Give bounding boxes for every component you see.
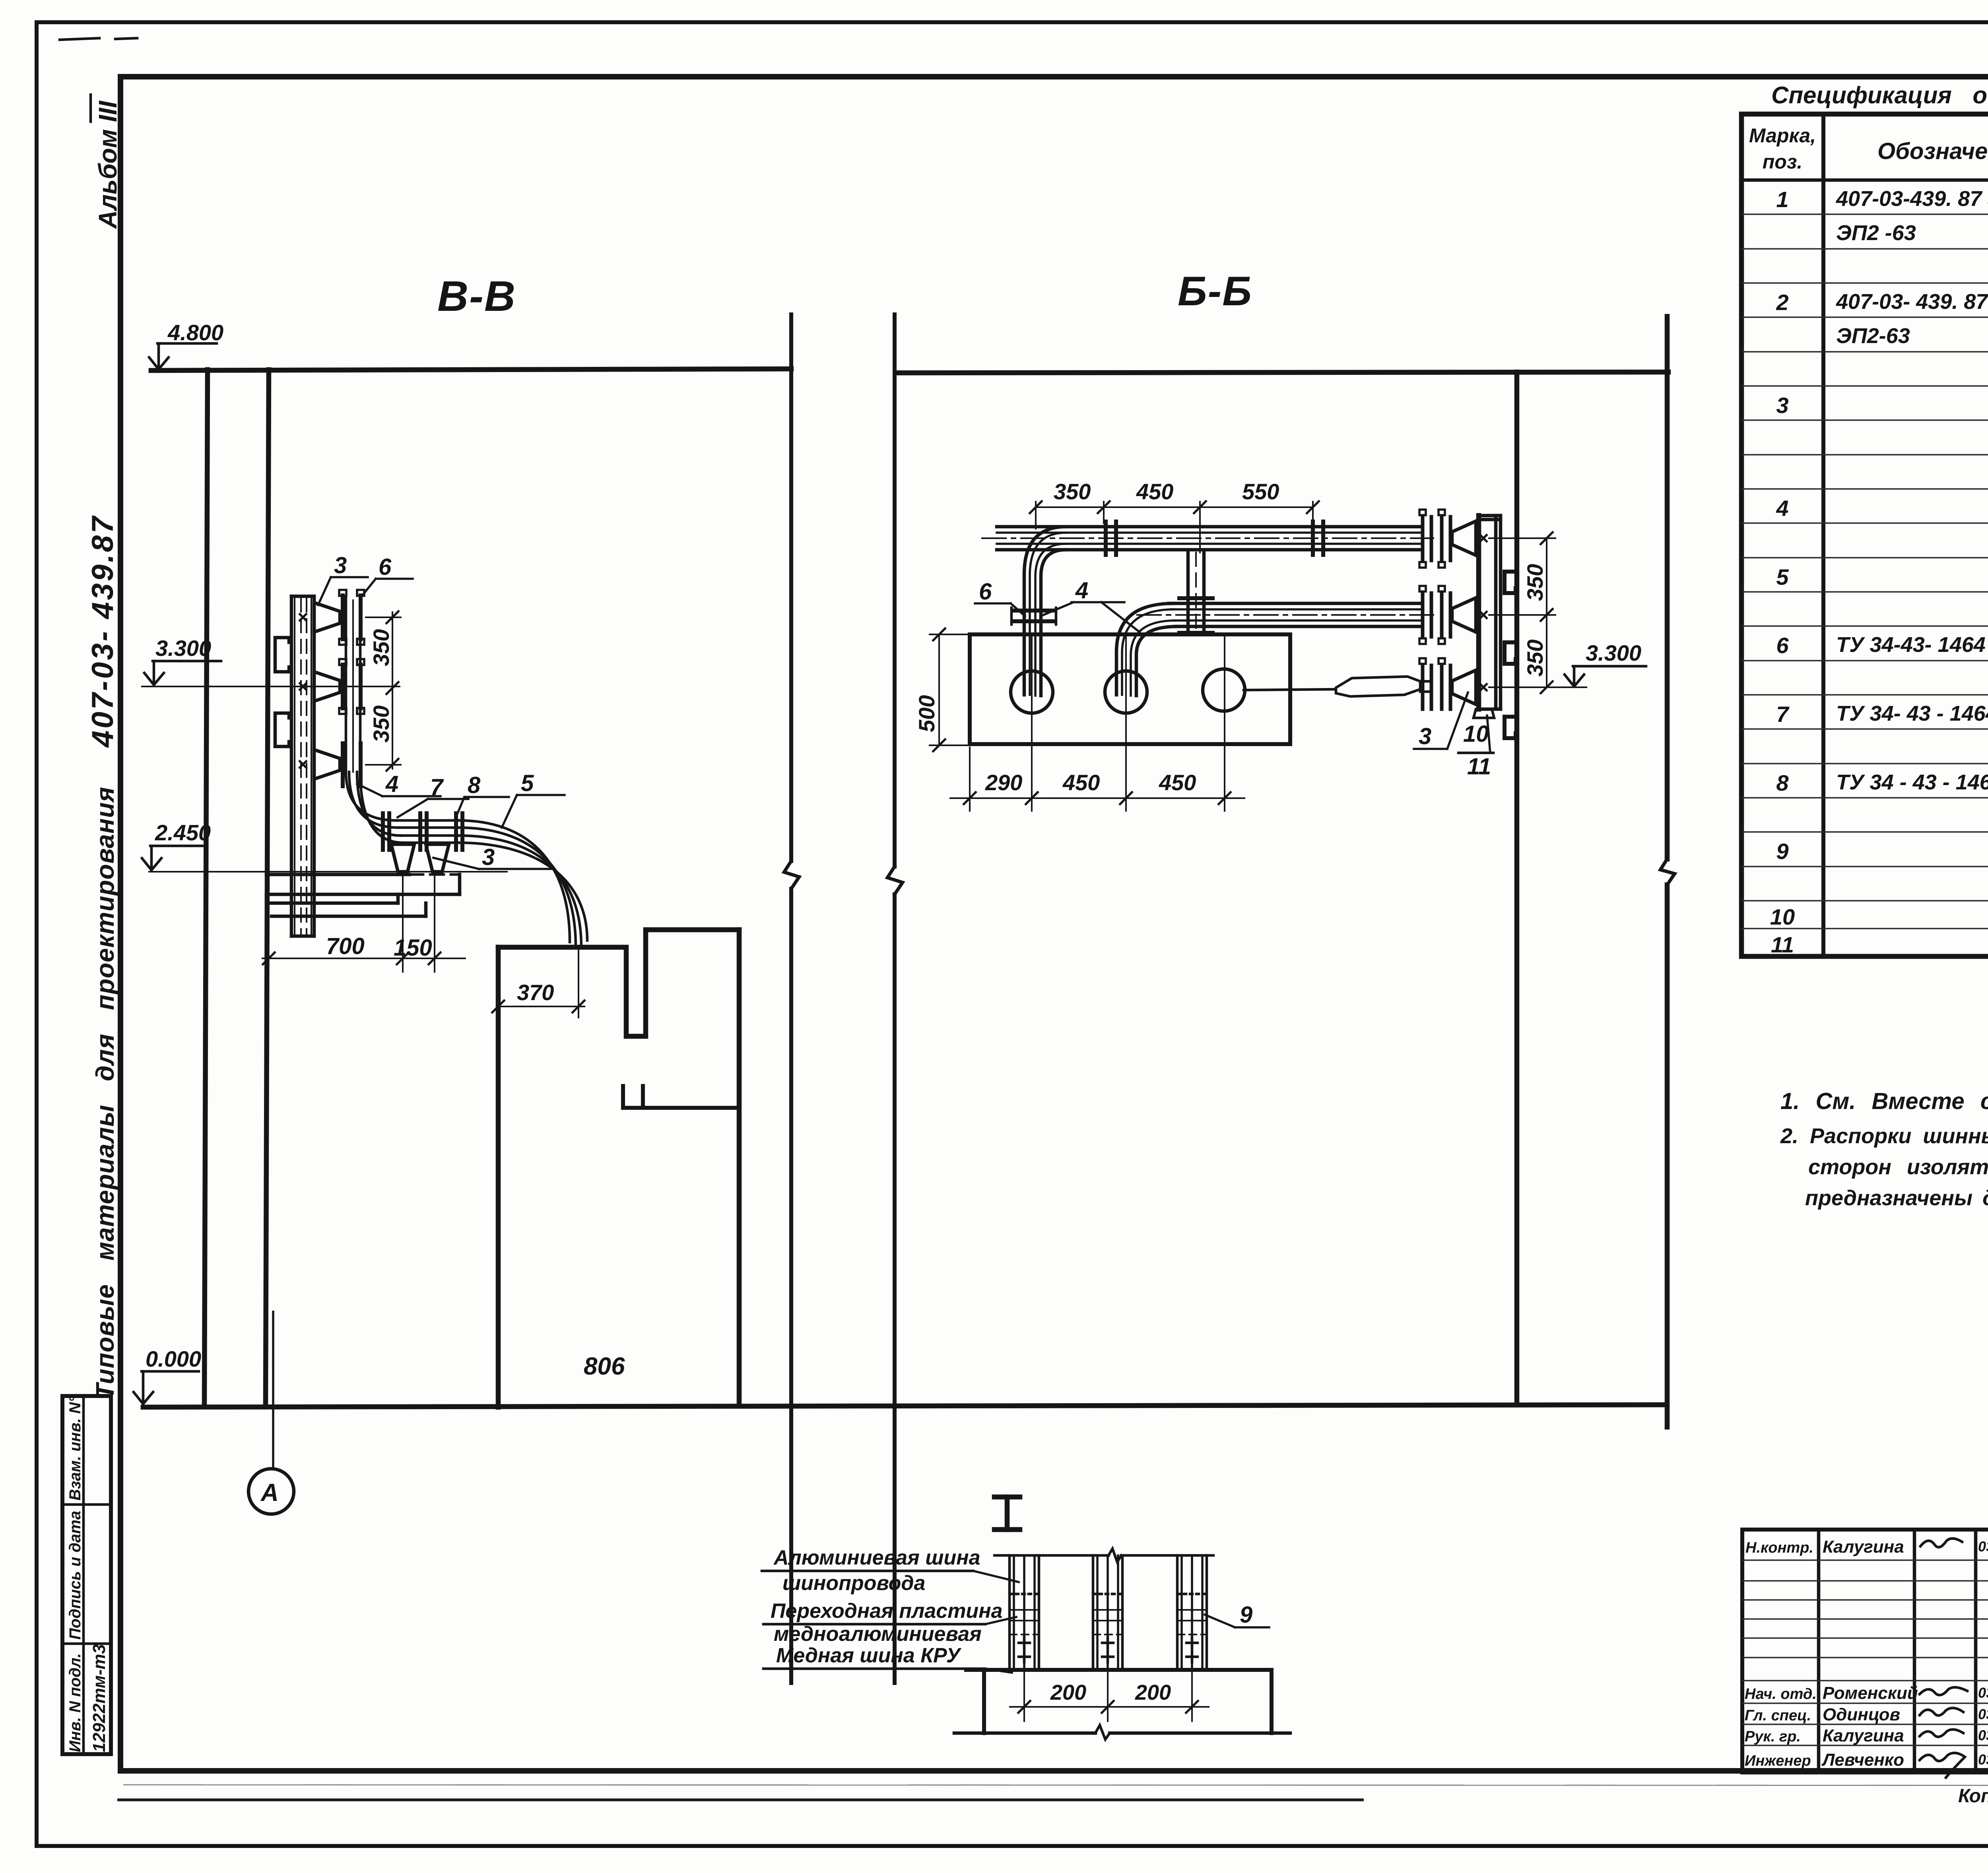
svg-text:11: 11	[1467, 754, 1491, 779]
svg-text:шинопровода: шинопровода	[782, 1572, 925, 1595]
kopir signature	[1958, 1786, 1988, 1807]
detail I roman numeral	[994, 1497, 1020, 1530]
svg-text:Нач. отд.: Нач. отд.	[1745, 1686, 1817, 1702]
label 7 with leader	[398, 774, 468, 817]
svg-text:Калугина: Калугина	[1823, 1537, 1904, 1557]
svg-text:8: 8	[1776, 770, 1789, 795]
third phase tap line	[1244, 677, 1431, 696]
detail I label 9	[1205, 1602, 1269, 1628]
svg-text:Переходная пластина: Переходная пластина	[771, 1600, 1003, 1623]
cabinet shelf	[623, 1086, 739, 1108]
wall plate flange bottom	[1419, 658, 1476, 709]
specification table row lines	[1741, 214, 1988, 929]
svg-text:407-03- 439. 87 ал. III: 407-03- 439. 87 ал. III	[1836, 290, 1988, 314]
wall break line right of pair	[887, 314, 903, 1683]
svg-text:Спецификация оборудования: Спецификация оборудования и материалов	[1771, 82, 1988, 109]
svg-text:700: 700	[326, 933, 365, 959]
dimension 350 350 vertical V-V	[366, 611, 401, 771]
svg-text:3.300: 3.300	[1586, 640, 1641, 665]
label 3 lower with leader	[433, 844, 553, 870]
label 6 leader B-B section	[975, 579, 1025, 616]
detail I callout aluminium bus	[762, 1546, 1019, 1595]
slab hole circle 3	[1203, 669, 1245, 711]
svg-text:Медная шина КРУ: Медная шина КРУ	[776, 1644, 962, 1667]
svg-text:Инв. N подл.: Инв. N подл.	[66, 1653, 84, 1752]
wall bracket upper	[275, 638, 289, 672]
svg-text:ЭП2-63: ЭП2-63	[1836, 324, 1910, 348]
svg-text:ТУ 34 - 43 - 1464 - 77: ТУ 34 - 43 - 1464 - 77	[1836, 770, 1988, 794]
svg-text:3: 3	[1776, 393, 1788, 418]
svg-text:2: 2	[1776, 290, 1788, 315]
svg-text:4: 4	[1776, 496, 1788, 521]
svg-text:6: 6	[379, 554, 392, 580]
dimension 350 350 right	[1489, 532, 1586, 693]
svg-text:03.87: 03.87	[1978, 1706, 1988, 1722]
cabinet 806 outline	[498, 930, 739, 1407]
svg-text:450: 450	[1159, 770, 1196, 795]
detail I bus column 1	[1010, 1555, 1039, 1670]
specification table designation column	[1836, 187, 1988, 794]
foundation slab	[970, 634, 1290, 744]
axis marker A	[248, 1312, 294, 1514]
svg-text:Альбом III: Альбом III	[93, 101, 122, 229]
svg-text:сторон изоляторов на расст: сторон изоляторов на расстоянии 100 мм ,	[1808, 1155, 1988, 1179]
svg-text:3: 3	[482, 844, 495, 870]
svg-text:350: 350	[1522, 640, 1547, 677]
svg-text:370: 370	[517, 980, 554, 1005]
svg-text:5: 5	[1776, 564, 1789, 589]
svg-text:7: 7	[1776, 702, 1790, 727]
clamp item6 on riser	[1011, 608, 1056, 624]
elevation mark 0.000	[134, 1346, 201, 1404]
svg-text:11: 11	[1771, 932, 1794, 957]
insulator bottom on plate	[300, 743, 361, 786]
horizontal busbar run	[397, 820, 458, 843]
dimension 700 150	[262, 874, 465, 972]
svg-text:Б-Б: Б-Б	[1178, 268, 1252, 314]
insulator middle on plate	[300, 659, 364, 714]
middle busbar bend down to hole 2	[1116, 603, 1177, 696]
svg-text:3: 3	[1419, 723, 1431, 749]
support insulator right	[426, 844, 449, 872]
detail I dimension 200 200	[1010, 1670, 1209, 1721]
right wall outer face with break	[1660, 316, 1675, 1427]
svg-text:1: 1	[1776, 187, 1788, 212]
support insulator left	[391, 844, 414, 872]
svg-text:9: 9	[1240, 1602, 1252, 1628]
svg-text:предназначены для крепления: предназначены для крепления верхней шины…	[1805, 1186, 1988, 1210]
svg-text:Н.контр.: Н.контр.	[1745, 1540, 1813, 1556]
dimension 370	[492, 950, 584, 1018]
bus clamp bars	[383, 813, 462, 850]
svg-text:350: 350	[369, 706, 394, 743]
svg-text:А: А	[260, 1479, 279, 1507]
svg-text:B-B: B-B	[437, 272, 516, 320]
svg-text:806: 806	[584, 1353, 625, 1380]
svg-text:350: 350	[1054, 479, 1091, 504]
elevation mark 2.450	[142, 820, 507, 872]
svg-text:350: 350	[369, 629, 394, 666]
svg-text:Гл. спец.: Гл. спец.	[1745, 1707, 1811, 1724]
svg-text:медноалюминиевая: медноалюминиевая	[774, 1623, 982, 1646]
svg-text:6: 6	[1776, 633, 1789, 658]
wall left column	[204, 370, 269, 1406]
svg-text:350: 350	[1522, 564, 1547, 601]
svg-text:5: 5	[521, 770, 534, 796]
svg-text:150: 150	[394, 935, 432, 961]
specification table header text	[1749, 124, 1988, 175]
vertical support member	[1179, 551, 1213, 634]
svg-text:Роменский: Роменский	[1823, 1683, 1918, 1703]
svg-text:500: 500	[914, 695, 939, 732]
svg-text:290: 290	[985, 770, 1022, 795]
specification table mark column	[1770, 187, 1795, 957]
support beam on wall	[266, 874, 460, 916]
svg-text:ТУ 34-43- 1464 - 77: ТУ 34-43- 1464 - 77	[1836, 633, 1988, 657]
svg-text:6: 6	[979, 579, 992, 605]
dimension 290 450 450 bottom	[950, 636, 1244, 811]
detail I callout copper bus	[763, 1644, 1012, 1673]
dimension 500 left	[914, 628, 975, 751]
fold line artifact	[123, 1785, 1988, 1786]
svg-text:9: 9	[1776, 839, 1788, 864]
svg-text:3: 3	[334, 553, 347, 578]
svg-text:4: 4	[1075, 578, 1088, 603]
svg-text:10: 10	[1770, 904, 1795, 929]
specification table frame	[1741, 114, 1988, 956]
svg-text:407-03-439. 87 ал. III: 407-03-439. 87 ал. III	[1836, 187, 1988, 211]
detail I callout transition plate	[763, 1600, 1016, 1646]
svg-text:10: 10	[1463, 721, 1489, 747]
clamp bars on top bus	[1106, 522, 1323, 555]
bushing mounting plate	[291, 596, 314, 936]
dimension 350 450 550 top	[1030, 479, 1319, 553]
channel bracket middle	[1505, 642, 1516, 664]
svg-text:Инженер: Инженер	[1745, 1753, 1811, 1769]
svg-text:03.87: 03.87	[1978, 1538, 1988, 1555]
svg-text:7: 7	[430, 774, 444, 800]
wall plate flange middle	[1419, 586, 1476, 644]
ceiling line 4.800 level	[151, 369, 791, 370]
svg-text:450: 450	[1062, 770, 1100, 795]
big bus curve item5	[458, 820, 587, 947]
svg-text:Левченко: Левченко	[1821, 1750, 1904, 1770]
wall plate flange top	[1419, 510, 1476, 568]
middle busbar horizontal run	[1137, 603, 1433, 626]
wall bracket lower	[275, 713, 289, 746]
svg-text:Взам. инв. N°: Взам. инв. N°	[66, 1396, 84, 1501]
channel bracket top	[1505, 572, 1516, 593]
svg-text:Калугина: Калугина	[1823, 1726, 1904, 1745]
svg-text:Копир.: Копир.	[1958, 1786, 1988, 1807]
slab hole circle 2	[1105, 671, 1147, 713]
svg-text:Обозначение: Обозначение	[1877, 138, 1988, 164]
svg-text:03.87: 03.87	[1978, 1727, 1988, 1743]
elevation mark 3.300 left	[142, 636, 400, 686]
ceiling line section B-B	[897, 372, 1668, 373]
detail I base block	[954, 1670, 1290, 1739]
svg-text:4.800: 4.800	[167, 320, 223, 345]
elevation mark 3.300 right	[1565, 640, 1646, 686]
insulator top on plate	[300, 590, 364, 645]
svg-text:550: 550	[1242, 479, 1279, 504]
label 8 with leader	[457, 772, 509, 814]
svg-text:12922тм-т3: 12922тм-т3	[89, 1644, 109, 1752]
svg-text:Подпись и дата: Подпись и дата	[66, 1511, 84, 1640]
svg-text:03.87: 03.87	[1978, 1751, 1988, 1768]
svg-text:ТУ 34- 43 - 1464 - 77: ТУ 34- 43 - 1464 - 77	[1836, 702, 1988, 725]
svg-text:200: 200	[1050, 1681, 1086, 1704]
svg-text:Марка,: Марка,	[1749, 124, 1816, 147]
vertical busbar riser	[346, 598, 403, 843]
label 6 top	[361, 554, 413, 597]
label 3 top	[318, 553, 368, 605]
svg-text:200: 200	[1135, 1681, 1171, 1704]
svg-text:450: 450	[1136, 479, 1173, 504]
svg-text:2. Распорки шинные ( поз. 8 ): 2. Распорки шинные ( поз. 8 ) , показанн…	[1780, 1124, 1988, 1148]
svg-text:407-03- 439.87: 407-03- 439.87	[86, 514, 120, 748]
svg-text:1. См. Вместе с листом ЭП2-: 1. См. Вместе с листом ЭП2-95	[1780, 1088, 1988, 1114]
svg-text:Одинцов: Одинцов	[1823, 1705, 1900, 1724]
svg-text:Рук. гр.: Рук. гр.	[1745, 1728, 1801, 1745]
svg-text:0.000: 0.000	[146, 1346, 201, 1371]
svg-text:8: 8	[468, 772, 481, 798]
svg-text:03.87: 03.87	[1978, 1685, 1988, 1701]
svg-text:ЭП2 -63: ЭП2 -63	[1836, 221, 1916, 245]
label 4 leader B-B section	[1043, 578, 1140, 632]
right wall inner face	[1514, 372, 1520, 1405]
signature table	[1742, 1530, 1988, 1778]
detail I bus column 2	[1093, 1555, 1122, 1670]
elevation mark 4.800	[149, 320, 223, 369]
top busbar horizontal run	[982, 527, 1433, 550]
svg-text:3.300: 3.300	[155, 636, 211, 661]
label 5 with leader	[502, 770, 565, 828]
svg-text:4: 4	[385, 771, 398, 797]
slab hole circle 1	[1011, 671, 1053, 713]
detail I cut line top	[994, 1549, 1213, 1562]
svg-text:Алюминиевая шина: Алюминиевая шина	[773, 1546, 980, 1569]
top busbar bend down to hole 1	[1024, 527, 1066, 696]
mounting plate right wall	[1474, 516, 1501, 718]
left stamp sidebar table	[62, 1396, 111, 1754]
margin text Album III	[91, 95, 122, 229]
wall break line left pair	[784, 314, 799, 1683]
detail I bus column 3	[1177, 1555, 1207, 1670]
floor line 0.000	[143, 1405, 1667, 1407]
svg-text:поз.: поз.	[1763, 151, 1803, 173]
label 3 10 11 leaders	[1414, 692, 1493, 779]
notes text	[1780, 1088, 1988, 1210]
svg-text:Типовые материалы для проек: Типовые материалы для проектирования	[91, 787, 119, 1399]
svg-text:2.450: 2.450	[155, 820, 211, 845]
label 4 with leader	[357, 771, 441, 797]
channel bracket bottom	[1505, 717, 1516, 738]
